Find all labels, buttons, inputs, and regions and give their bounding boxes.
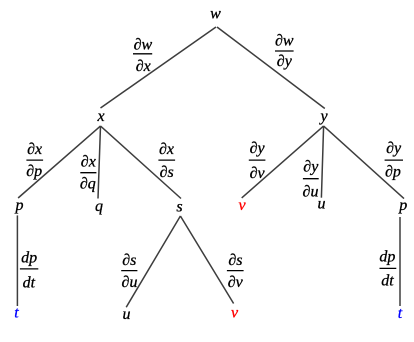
label dp/dt right bar (380, 267, 397, 269)
wire y-p (324, 126, 404, 199)
label ds/dv bar (227, 270, 244, 272)
svg-text:∂q: ∂q (80, 176, 96, 193)
wire x-q (98, 126, 101, 199)
wire p-t right (399, 217, 401, 306)
svg-text:∂x: ∂x (159, 141, 174, 158)
svg-text:y: y (318, 108, 328, 125)
svg-text:p: p (398, 197, 407, 214)
svg-text:∂y: ∂y (303, 159, 319, 176)
label dp/dt left bar (20, 268, 38, 270)
svg-text:v: v (238, 197, 246, 214)
label dx/dp bar (26, 159, 43, 161)
svg-text:x: x (96, 108, 104, 125)
svg-text:s: s (176, 199, 182, 216)
svg-text:∂s: ∂s (228, 252, 242, 269)
wire x-s (101, 126, 182, 199)
svg-text:t: t (14, 305, 19, 322)
svg-text:∂y: ∂y (386, 140, 402, 157)
svg-text:∂v: ∂v (250, 165, 266, 182)
svg-text:∂x: ∂x (81, 154, 96, 171)
svg-text:w: w (210, 6, 221, 23)
wire w-x (101, 27, 217, 108)
svg-text:dp: dp (379, 248, 395, 265)
svg-text:q: q (95, 198, 103, 215)
svg-text:∂x: ∂x (27, 141, 42, 158)
svg-text:∂u: ∂u (122, 274, 138, 291)
label dy/dv bar (249, 159, 266, 161)
svg-text:∂u: ∂u (303, 183, 319, 200)
label dx/ds bar (158, 159, 175, 161)
svg-text:∂y: ∂y (277, 53, 293, 70)
svg-text:p: p (15, 197, 24, 214)
svg-text:dp: dp (21, 249, 37, 266)
svg-text:∂x: ∂x (136, 58, 151, 75)
wire s-v (180, 216, 233, 304)
label dw/dy bar (275, 50, 294, 52)
svg-text:∂w: ∂w (275, 33, 294, 50)
svg-text:∂v: ∂v (228, 274, 244, 291)
svg-text:dt: dt (381, 272, 394, 289)
label dy/du bar (303, 178, 319, 180)
svg-text:t: t (398, 305, 403, 322)
label ds/du bar (121, 270, 137, 272)
label dx/dq bar (80, 172, 96, 174)
wire y-v (242, 126, 324, 198)
wire s-u (126, 216, 180, 307)
svg-text:u: u (318, 196, 326, 213)
svg-text:∂y: ∂y (250, 140, 266, 157)
svg-text:dt: dt (23, 274, 36, 291)
wire y-u (321, 126, 323, 198)
wire x-p (18, 126, 100, 198)
svg-text:u: u (123, 306, 131, 323)
svg-text:∂s: ∂s (122, 252, 136, 269)
svg-text:∂w: ∂w (134, 37, 153, 54)
svg-text:v: v (231, 305, 239, 322)
svg-text:∂p: ∂p (385, 163, 401, 180)
label dw/dx bar (133, 53, 152, 55)
label dy/dp bar (385, 159, 403, 161)
wire p-t left (16, 215, 18, 306)
wire w-y (217, 27, 325, 109)
svg-text:∂p: ∂p (26, 163, 42, 180)
svg-text:∂s: ∂s (160, 164, 174, 181)
